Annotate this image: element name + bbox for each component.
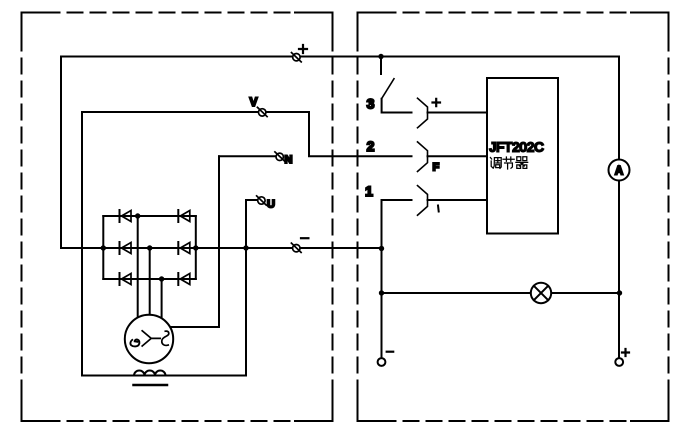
svg-text:3: 3 [367, 96, 375, 112]
svg-text:V: V [249, 95, 257, 109]
junction: + feed to bridge left bus [101, 245, 106, 250]
wire: pin 1 to regulator [428, 199, 488, 201]
wire: phase row 1 [103, 215, 196, 217]
ammeter A [609, 160, 630, 181]
junction: right bus negative node [193, 245, 198, 250]
wire: lamp row [382, 292, 620, 294]
diode D2 (row1 right) [178, 210, 190, 222]
wire: field winding bottom run [82, 375, 246, 377]
charge indicator lamp [531, 283, 551, 303]
wire: negative bus row (through middle diode row, to right unit) [61, 247, 382, 249]
rectifier bridge: left bus [102, 216, 104, 279]
terminal U [257, 196, 267, 205]
wire: pin 2 to regulator [428, 155, 488, 157]
generator ac wave mark (rotated tilde) [162, 331, 169, 345]
wire: pin 3 to regulator [428, 112, 488, 114]
svg-text:F: F [433, 162, 440, 174]
junction: phase tap b node [147, 245, 152, 250]
wire: N drop to generator neutral [170, 156, 219, 327]
field winding L [134, 371, 166, 376]
wire: N lead [219, 155, 278, 157]
wire: V lead (field supply) to connector pin 2 [82, 112, 412, 156]
generator letter G (rotated) [130, 339, 139, 346]
wire: V drop to field winding [81, 112, 83, 376]
connector pin 2 [418, 142, 428, 172]
wire: ammeter to battery + terminal [618, 181, 620, 359]
svg-text:U: U [267, 199, 275, 211]
wire: pin 1 lead [382, 200, 412, 249]
left dashed enclosure (alternator unit) [22, 13, 333, 422]
label - [301, 237, 308, 239]
generator star (Y) mark [142, 331, 160, 346]
wire: U lead [246, 199, 259, 201]
diode D6 (row3 right) [178, 273, 190, 285]
junction: negative bus node [379, 246, 384, 251]
wire: U / field return drop [245, 200, 247, 376]
label tick (pin 1) [437, 206, 440, 212]
svg-text:N: N [285, 154, 293, 166]
terminal - (negative bus) [291, 243, 301, 252]
diode D4 (row2 right) [178, 242, 190, 254]
label + [299, 45, 307, 53]
wire: top positive bus from alternator + terminal to ammeter [61, 57, 619, 249]
diode D1 (row1 left) [120, 210, 132, 222]
svg-text:JFT202C: JFT202C [490, 140, 545, 155]
diode D3 (row2 left) [120, 242, 132, 254]
junction: lamp left node [379, 290, 384, 295]
junction: phase tap c node [159, 276, 164, 281]
wire: phase tap a [137, 216, 139, 317]
diode D5 (row3 left) [120, 273, 132, 285]
label + (battery) [622, 349, 629, 356]
junction: phase tap a node [135, 213, 140, 218]
junction: field return node [243, 245, 248, 250]
terminal + (battery side) [615, 358, 623, 366]
wire: phase tap c [161, 279, 163, 318]
field winding core line [134, 384, 168, 387]
svg-text:1: 1 [365, 183, 373, 199]
rectifier bridge: right bus [195, 216, 197, 279]
label 调节器 (drawn strokes) [490, 157, 527, 169]
terminal N [275, 152, 285, 161]
wire: phase row 3 [103, 278, 196, 280]
svg-text:A: A [615, 166, 623, 178]
terminal - (battery side) [378, 358, 386, 366]
switch S (ignition switch) [381, 57, 412, 113]
junction: ignition feed node [378, 54, 383, 59]
svg-text:2: 2 [367, 138, 375, 154]
label + (pin 3) [433, 99, 441, 106]
generator G [125, 315, 173, 363]
wire: negative drop to battery - terminal [381, 249, 383, 359]
terminal V [257, 107, 267, 116]
right dashed enclosure (regulator unit) [358, 13, 669, 422]
connector pin 3 [418, 98, 428, 128]
regulator box JFT202C [487, 78, 558, 234]
label - (battery) [387, 351, 394, 353]
terminal + (alternator output) [292, 53, 302, 62]
junction: lamp right node [617, 290, 622, 295]
connector pin 1 [418, 186, 428, 216]
wire: phase tap b [149, 248, 151, 315]
